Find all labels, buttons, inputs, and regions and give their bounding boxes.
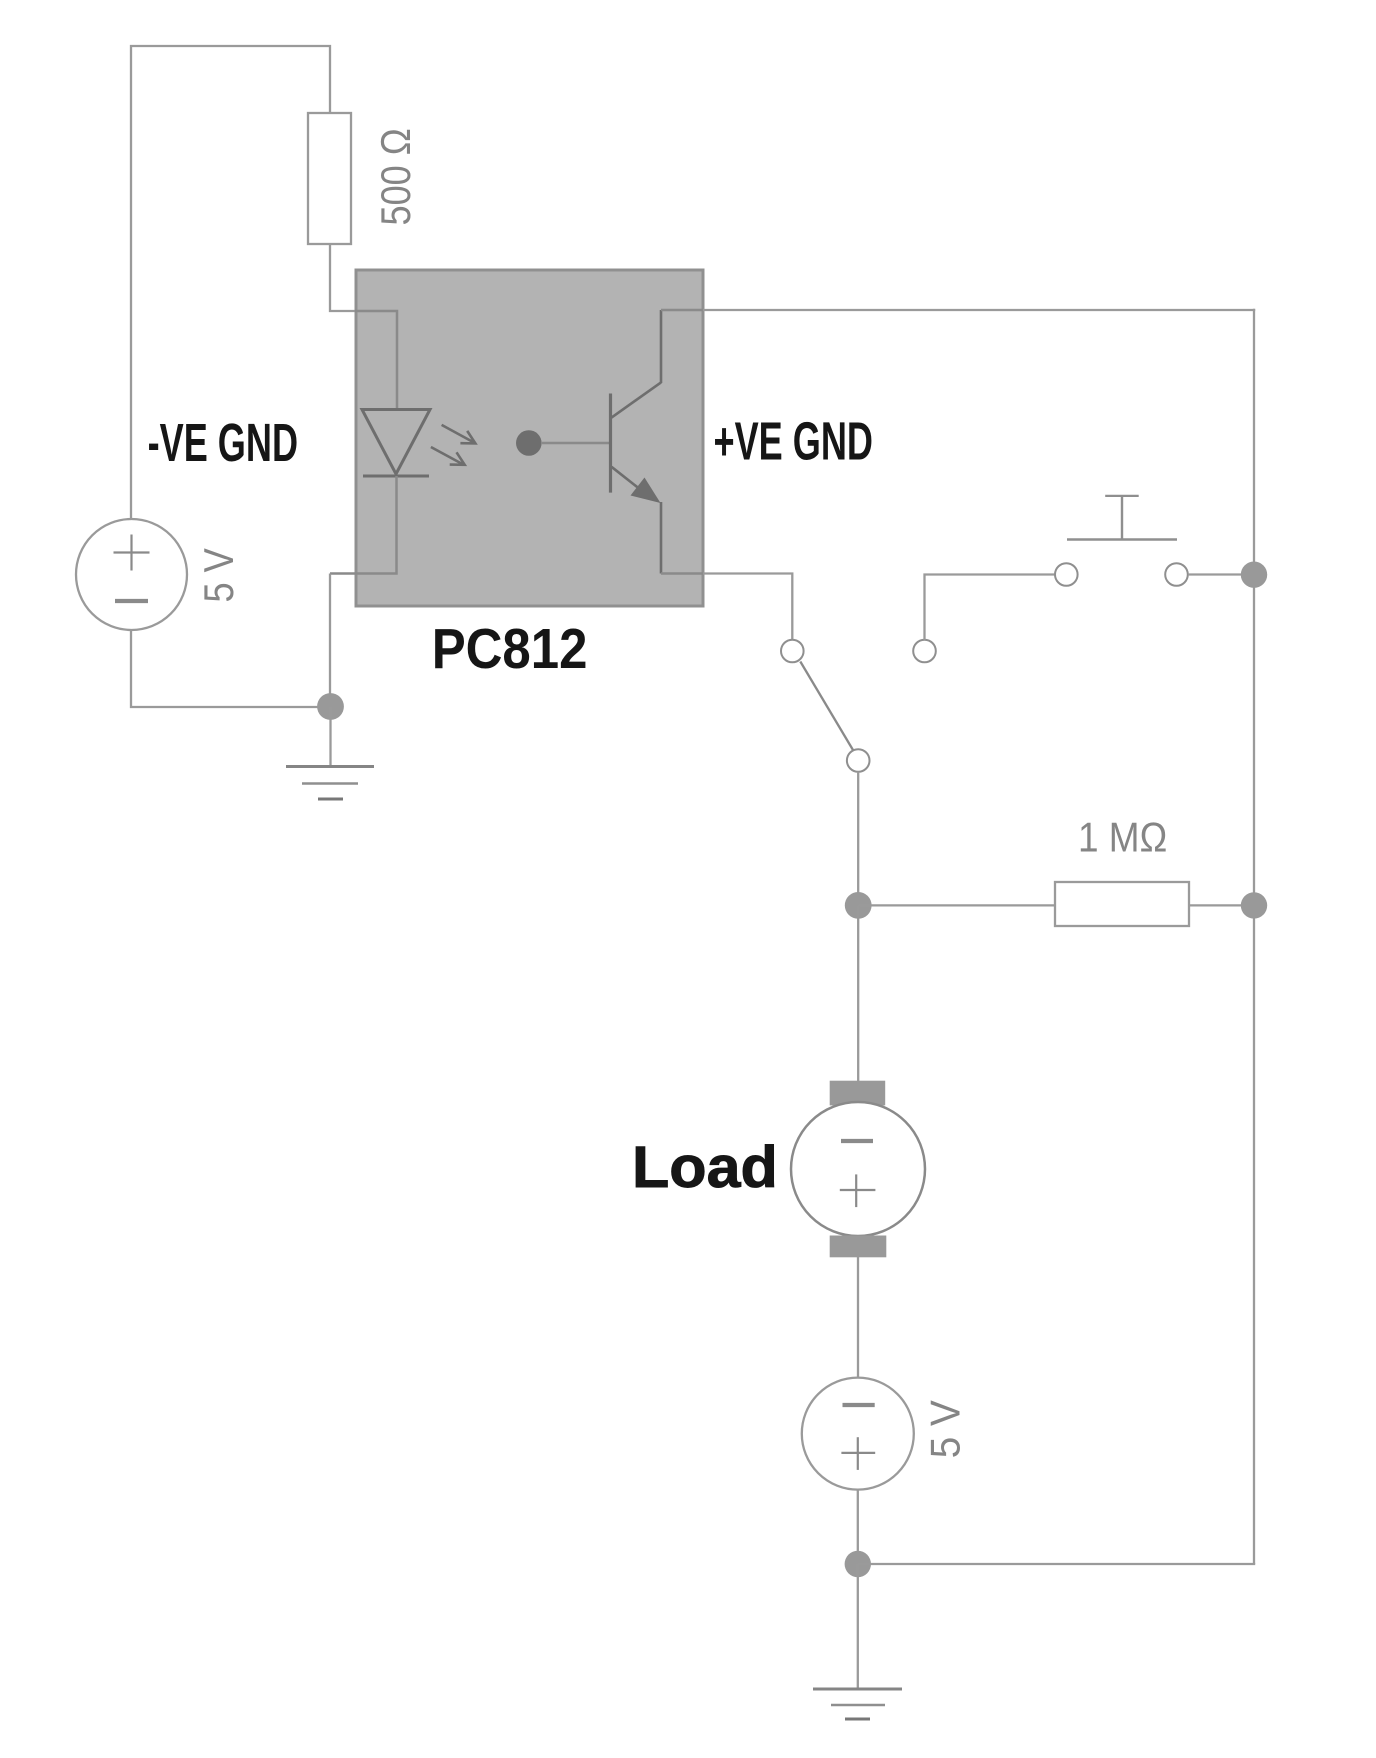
opto-coupler U1 PC812 body: [356, 270, 703, 606]
LED D1: [362, 410, 430, 477]
pin wire emitter (inside box, right bottom): [661, 572, 703, 575]
motor M1 Load: [791, 1081, 925, 1258]
junction node B (right rail at pushbutton): [1241, 562, 1267, 588]
ground GND2: [813, 1689, 902, 1719]
junction node C: [845, 892, 872, 919]
right rail wire: [1253, 309, 1255, 1564]
pin wire collector (inside box, right top): [661, 309, 703, 312]
light arrow 2: [431, 447, 465, 465]
pushbutton SW2 actuator: [1067, 496, 1177, 540]
wire emitter pin to switch: [703, 574, 792, 641]
switch SW1 throw terminal 1: [781, 640, 804, 663]
svg-text:Load: Load: [632, 1134, 778, 1199]
ground GND1: [286, 767, 374, 800]
pin wire anode (inside box, left top): [355, 311, 397, 409]
svg-text:1 MΩ: 1 MΩ: [1078, 814, 1167, 861]
wire switch common down to node C: [857, 772, 859, 906]
junction node E: [845, 1551, 871, 1577]
wire node C to resistor R2: [858, 904, 1055, 906]
wire node E to ground: [857, 1564, 859, 1689]
svg-text:-VE GND: -VE GND: [148, 413, 298, 473]
wire node E to right rail: [858, 1563, 1255, 1565]
phototransistor Q1: [611, 310, 662, 574]
junction node D (right rail at R2): [1241, 892, 1267, 918]
voltage source V2 5V: [802, 1378, 914, 1490]
base wire: [541, 442, 609, 445]
svg-text:+VE GND: +VE GND: [714, 411, 873, 471]
switch SW1 common terminal: [847, 749, 870, 772]
voltage source V1 5V: [76, 519, 187, 630]
wire resistor R2 to right rail: [1189, 904, 1254, 906]
pushbutton SW2 terminal right: [1165, 563, 1188, 586]
resistor R1 500 ohm: [308, 113, 351, 244]
svg-text:5 V: 5 V: [197, 548, 243, 602]
wire junction to ground: [329, 707, 331, 767]
wire collector pin to right rail: [703, 309, 1255, 311]
wire source bottom to junction: [131, 630, 330, 707]
svg-text:5 V: 5 V: [921, 1400, 969, 1458]
pin wire cathode (inside box, left bottom): [330, 476, 397, 574]
wire resistor to opto anode pin: [330, 244, 356, 311]
pushbutton SW2 terminal left: [1055, 563, 1078, 586]
svg-text:500 Ω: 500 Ω: [374, 128, 420, 225]
wire top-left loop: [131, 46, 330, 520]
wire source V2 to node E: [857, 1490, 859, 1564]
junction node A: [317, 693, 344, 720]
switch SW1 throw terminal 2: [913, 640, 936, 663]
wire pushbutton to right rail: [1188, 573, 1254, 575]
wire motor to source V2: [857, 1257, 859, 1378]
wire opto cathode pin down to junction: [329, 574, 331, 708]
phototransistor base dot: [516, 430, 542, 456]
wire node C down to motor: [857, 905, 859, 1081]
light arrow 1: [442, 425, 476, 444]
resistor R2 1 Mohm: [1055, 882, 1189, 926]
switch SW1 lever: [800, 662, 853, 751]
wire switch throw 2 up to pushbutton: [925, 575, 1056, 641]
svg-text:PC812: PC812: [432, 618, 588, 681]
